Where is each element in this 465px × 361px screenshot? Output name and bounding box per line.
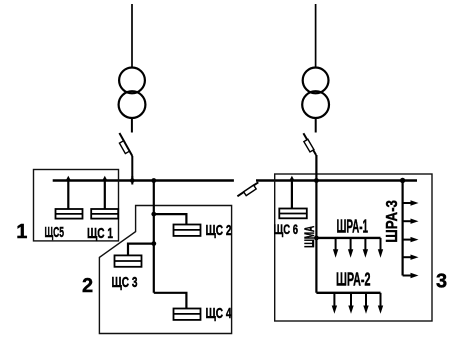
svg-text:ШРА-2: ШРА-2 (336, 270, 371, 290)
ShRA-1 tap arrow 1 (333, 238, 338, 258)
ShRA-3 tap arrow 4 (403, 255, 419, 260)
zone box 3 (275, 174, 432, 321)
svg-text:ЩС 4: ЩС 4 (206, 305, 232, 322)
svg-text:ЩС5: ЩС5 (45, 224, 65, 241)
ShRA-3 tap arrow 3 (403, 237, 419, 242)
panel ShchS1 (91, 209, 118, 219)
node: feeder ShchS1 junction (102, 176, 108, 181)
ShRA-1 tap arrow 4 (378, 238, 383, 258)
ShRA-2 tap arrow 3 (363, 293, 368, 314)
svg-text:1: 1 (16, 221, 27, 243)
svg-text:ЩС 3: ЩС 3 (112, 274, 138, 291)
node: ShRA-3 bus junction (400, 178, 405, 183)
disconnect switch QS (bus tie) (237, 182, 258, 196)
svg-text:ЩС 1: ЩС 1 (87, 225, 113, 242)
wire: drop to ShchS6 (291, 181, 293, 209)
busway ShRA-2 (316, 292, 380, 294)
svg-text:ШРА-3: ШРА-3 (384, 200, 401, 243)
panel ShchS3 (115, 255, 142, 266)
node: feeder ShchS5 junction (66, 176, 72, 181)
wire: left feeder incoming (131, 4, 133, 68)
busbar left (bus A) (53, 179, 234, 181)
ShRA-1 tap arrow 3 (363, 238, 368, 258)
panel ShchS6 (279, 209, 307, 219)
svg-text:ШРА-1: ШРА-1 (337, 216, 369, 236)
breaker QF1 (119, 133, 132, 156)
wire: ShMA riser (315, 155, 317, 293)
breaker QF2 (303, 133, 316, 155)
node: feeder ShchS6 junction (289, 176, 295, 181)
ShRA-3 tap arrow 1 (403, 200, 419, 205)
transformer T2 (302, 68, 329, 119)
wire: drop to ShchS5 (67, 181, 69, 210)
wire: main drop into box 2 (153, 181, 155, 293)
svg-text:2: 2 (82, 275, 93, 297)
wire: right feeder incoming (315, 4, 317, 68)
busbar right (bus B) (256, 179, 417, 181)
wire: branch to ShchS3 (128, 244, 154, 256)
panel ShchS4 (174, 309, 201, 320)
ShRA-2 tap arrow 2 (348, 293, 353, 314)
node: branch to ShchS2 (151, 212, 156, 217)
zone box 1 (34, 170, 119, 241)
zone box 2 (99, 206, 231, 334)
busway ShRA-3 riser (402, 181, 404, 276)
wire: branch to ShchS2 (154, 214, 187, 224)
wire: branch to ShchS4 (154, 293, 187, 309)
wire: T2 secondary (315, 118, 317, 133)
panel ShchS5 (56, 209, 83, 219)
node: ShRA-1 junction (314, 236, 319, 241)
wire: T1 secondary (131, 118, 133, 133)
ShRA-1 tap arrow 2 (348, 238, 353, 258)
wire: drop to ShchS1 (104, 181, 106, 210)
svg-text:ЩС 2: ЩС 2 (206, 222, 232, 239)
ShRA-3 tap arrow 2 (403, 219, 419, 224)
ShRA-2 tap arrow 1 (332, 293, 337, 314)
svg-text:ЩС 6: ЩС 6 (274, 222, 299, 237)
node: T2 / ShMA bus junction (314, 178, 319, 183)
node: T1 to bus junction (131, 176, 133, 185)
ShRA-3 tap arrow 5 (403, 273, 419, 278)
ShRA-2 tap arrow 4 (378, 293, 383, 314)
transformer T1 (119, 68, 146, 119)
busway ShRA-1 (316, 237, 380, 239)
node: box2 feeder junction (151, 178, 156, 183)
svg-text:3: 3 (436, 270, 447, 292)
panel ShchS2 (174, 225, 201, 236)
wire: QF1 to left bus (131, 156, 133, 181)
node: branch to ShchS3 (151, 241, 156, 246)
